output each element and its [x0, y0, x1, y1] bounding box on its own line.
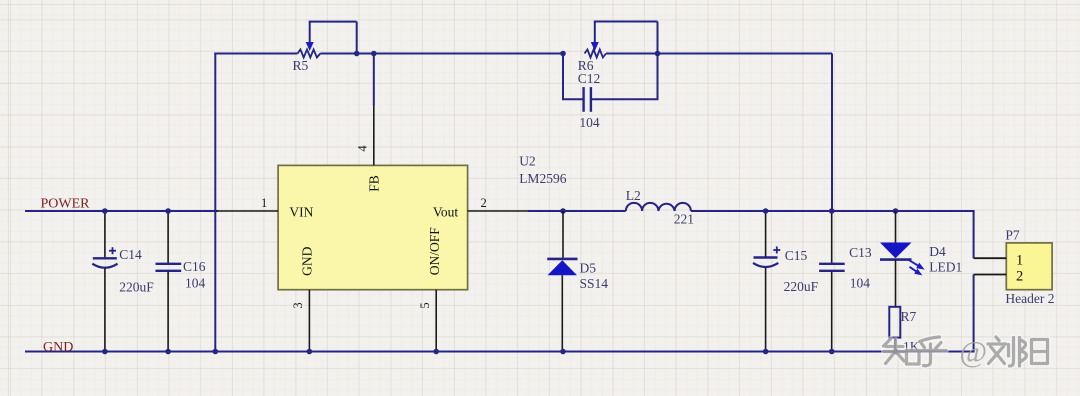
node junction FB [371, 51, 377, 57]
wire top feedback line middle segment [320, 53, 563, 55]
diode D5 SS14 [547, 211, 608, 352]
node junction pin5 on GND rail [433, 349, 439, 355]
svg-text:LM2596: LM2596 [519, 171, 567, 186]
svg-text:2: 2 [481, 196, 487, 210]
svg-text:4: 4 [356, 145, 370, 152]
svg-text:C13: C13 [849, 245, 872, 260]
node junction R5 wiper [354, 51, 360, 57]
node junction C15 bottom [763, 349, 769, 355]
capacitor C12 [578, 71, 601, 130]
svg-text:VIN: VIN [289, 205, 313, 220]
capacitor C13 [819, 211, 872, 352]
node junction D5 bottom [560, 349, 566, 355]
watermark 知乎 @刘阳 [884, 336, 1048, 369]
wire POWER rail [25, 210, 218, 212]
node junction C16 bottom [165, 349, 171, 355]
svg-text:220uF: 220uF [784, 279, 819, 294]
capacitor C14 [92, 211, 154, 352]
svg-text:C16: C16 [183, 259, 206, 274]
node junction C13 bottom [829, 349, 835, 355]
svg-text:FB: FB [367, 175, 382, 192]
wire GND rail [25, 351, 974, 353]
node POWER label [41, 197, 91, 212]
node junction divider vertical on GND rail [213, 349, 219, 355]
wire L2 to output corner [691, 210, 974, 212]
connector P7 Header 2 [974, 228, 1055, 307]
svg-text:D5: D5 [580, 261, 597, 276]
pin 1 VIN [216, 196, 314, 220]
pin 2 Vout [433, 196, 528, 220]
svg-text:3: 3 [291, 302, 305, 308]
svg-text:C12: C12 [578, 71, 601, 86]
svg-text:5: 5 [418, 302, 432, 308]
svg-text:POWER: POWER [41, 197, 91, 212]
svg-text:R5: R5 [293, 58, 309, 73]
svg-text:104: 104 [579, 115, 600, 130]
wire feedback divider left vertical [214, 53, 216, 352]
svg-text:P7: P7 [1005, 228, 1020, 243]
pin 5 ON/OFF [418, 227, 442, 350]
wire top feedback line right segment [606, 53, 832, 55]
svg-text:C14: C14 [119, 247, 142, 262]
resistor R6 [578, 22, 658, 74]
svg-text:104: 104 [185, 276, 206, 291]
wire FB net vertical [373, 54, 375, 106]
node GND label [43, 340, 73, 355]
svg-text:C15: C15 [785, 248, 808, 263]
svg-text:LED1: LED1 [929, 260, 962, 275]
IC U2 LM2596 [278, 154, 567, 290]
wire Vout to L2 [528, 210, 626, 212]
node junction D5 top [560, 208, 566, 214]
wire vertical from feedback line to output node [831, 54, 833, 212]
svg-text:2: 2 [1016, 269, 1023, 285]
node junction pin3 on GND rail [307, 349, 313, 355]
capacitor C16 [156, 211, 206, 352]
svg-text:104: 104 [850, 276, 871, 291]
node junction C16 top [165, 208, 171, 214]
resistor R7 [889, 307, 919, 354]
svg-text:U2: U2 [519, 154, 536, 169]
node junction R6 right [655, 51, 661, 57]
svg-text:SS14: SS14 [580, 276, 609, 291]
wire top feedback line left segment [214, 53, 297, 55]
svg-text:GND: GND [43, 340, 73, 355]
svg-text:1: 1 [261, 196, 267, 210]
svg-text:R7: R7 [901, 309, 917, 324]
node junction R7 bottom [893, 349, 899, 355]
svg-text:221: 221 [674, 212, 694, 227]
svg-text:L2: L2 [626, 188, 641, 203]
svg-text:Header 2: Header 2 [1005, 291, 1054, 306]
capacitor C15 [753, 211, 819, 352]
svg-text:GND: GND [299, 246, 314, 275]
node junction C14 bottom [102, 349, 108, 355]
svg-text:@: @ [960, 336, 988, 369]
node junction R6 left [560, 51, 566, 57]
diode D4 LED1 [880, 211, 962, 307]
pin 3 GND [291, 246, 314, 350]
inductor L2 [626, 188, 694, 227]
pin 4 FB [356, 106, 382, 192]
wire C12 parallel loop [563, 54, 658, 100]
node junction D4 top [893, 208, 899, 214]
wire header pin2 to GND [973, 275, 975, 353]
resistor R5 [293, 22, 357, 73]
svg-text:ON/OFF: ON/OFF [427, 227, 442, 276]
node junction C14 top [102, 208, 108, 214]
svg-text:220uF: 220uF [119, 280, 154, 295]
node junction C13 top [829, 208, 835, 214]
node junction C15 top [763, 208, 769, 214]
svg-text:1: 1 [1016, 253, 1023, 269]
svg-text:Vout: Vout [433, 205, 459, 220]
wire output to header pin1 [973, 210, 975, 258]
svg-text:D4: D4 [929, 244, 946, 259]
